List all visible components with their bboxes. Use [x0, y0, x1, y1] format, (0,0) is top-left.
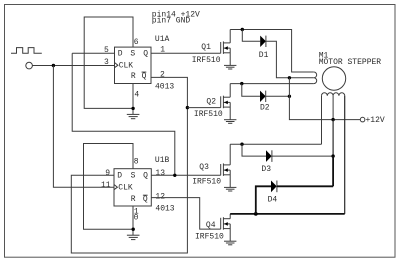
- wire U1A Q (pin1) to Q1 gate: [151, 52, 221, 54]
- ground Q2 source: [224, 120, 236, 124]
- svg-text:CLK: CLK: [118, 184, 133, 193]
- node D3 anode tap: [240, 143, 243, 146]
- wire D3 cathode to +12V riser: [272, 155, 333, 157]
- svg-text:U1B: U1B: [155, 156, 170, 165]
- svg-text:CLK: CLK: [119, 62, 134, 71]
- transistor Q1: [221, 30, 231, 66]
- wire D3 anode: [242, 144, 266, 156]
- svg-text:2: 2: [160, 71, 165, 80]
- wire Q2 drain to motor winding A bottom: [230, 83, 314, 85]
- svg-text:S: S: [131, 171, 136, 180]
- svg-text:6: 6: [134, 38, 139, 47]
- svg-text:4: 4: [134, 91, 139, 100]
- svg-text:Q: Q: [143, 171, 148, 180]
- clock input square-wave symbol: [11, 48, 42, 54]
- svg-text:D4: D4: [268, 195, 278, 204]
- svg-text:Q3: Q3: [199, 163, 209, 172]
- node D1 anode tap: [241, 28, 244, 31]
- transistor Q3: [221, 144, 231, 187]
- motor winding A center tap lead: [289, 77, 313, 79]
- wire U1B Q (pin13) to Q3 gate: [151, 174, 220, 176]
- wire U1B R (pin10) to ground: [132, 206, 134, 235]
- node D4 anode tap: [254, 212, 258, 216]
- svg-text:U1A: U1A: [155, 35, 170, 44]
- wire U1A S (pin6) to ground loop: [84, 17, 133, 108]
- wire +12V riser and rail: [289, 78, 360, 120]
- diode D4: [271, 181, 277, 193]
- wire D4 cathode to +12V riser: [277, 185, 333, 187]
- motor winding A coil arcs: [314, 72, 317, 84]
- node Qbar/Q2gate junction: [186, 106, 189, 109]
- node D2 anode tap: [240, 82, 243, 85]
- node D3 cathode junction: [331, 154, 334, 157]
- svg-text:MOTOR STEPPER: MOTOR STEPPER: [319, 58, 382, 67]
- svg-text:Q1: Q1: [201, 43, 211, 52]
- svg-text:R: R: [131, 195, 136, 204]
- ground Q1 source: [224, 65, 236, 69]
- svg-text:11: 11: [101, 181, 111, 190]
- wire D1 cathode to +12V node: [266, 41, 290, 78]
- terminal +12V pad: [360, 117, 365, 122]
- wire winding B center lead: [332, 96, 334, 120]
- svg-text:pin7 GND: pin7 GND: [152, 17, 191, 26]
- wire input to U1A CLK: [32, 65, 114, 67]
- wire D2 cathode to +12V riser: [266, 95, 290, 97]
- diode D3: [266, 150, 272, 162]
- wire clock down to U1B CLK: [53, 66, 114, 188]
- wire winding B lead3 to Q4 drain: [344, 96, 346, 214]
- svg-text:IRF510: IRF510: [192, 178, 221, 187]
- svg-text:D3: D3: [261, 165, 271, 174]
- node D2 cathode junction: [288, 95, 291, 98]
- svg-text:IRF510: IRF510: [194, 110, 223, 119]
- svg-text:9: 9: [105, 169, 110, 178]
- wire U1A R (pin4) to ground: [132, 84, 134, 115]
- ground Q4 source: [224, 241, 236, 245]
- node winding B center / +12V rail: [331, 118, 334, 121]
- svg-text:13: 13: [155, 169, 165, 178]
- wire D1 anode: [242, 30, 260, 42]
- wire U1A D loop to U1B Q node: [72, 53, 175, 175]
- svg-text:IRF510: IRF510: [192, 56, 221, 65]
- svg-text:R: R: [131, 72, 136, 81]
- svg-text:12: 12: [155, 193, 165, 202]
- svg-text:Q: Q: [143, 50, 148, 59]
- wire Q2 gate: [187, 107, 220, 109]
- node clock junction: [52, 64, 55, 67]
- svg-text:D2: D2: [260, 103, 270, 112]
- wire U1B S (pin8) to ground loop: [84, 144, 134, 230]
- ground U1A: [127, 114, 140, 118]
- svg-text:3: 3: [104, 58, 109, 67]
- svg-text:Q: Q: [142, 72, 147, 81]
- wire U1A Qbar (pin2) to Q2 gate and U1B D loop: [71, 77, 187, 253]
- transistor Q4: [221, 214, 231, 241]
- wire Q1 drain to motor winding A top: [230, 30, 314, 73]
- node U1A S/R ground junction: [131, 107, 134, 110]
- svg-text:4013: 4013: [155, 83, 174, 92]
- input terminal pad: [26, 62, 33, 69]
- svg-text:Q2: Q2: [206, 97, 216, 106]
- svg-text:4013: 4013: [155, 205, 174, 214]
- wire winding B lead1 to Q3 drain: [321, 96, 323, 145]
- transistor Q2: [221, 84, 231, 120]
- wire Q4 drain to winding B lead3: [230, 213, 345, 215]
- node winding A center tap: [288, 76, 291, 79]
- U1A clk wedge: [115, 63, 118, 68]
- svg-text:S: S: [130, 50, 135, 59]
- diode D2: [260, 91, 266, 102]
- U1B clk wedge: [114, 185, 117, 190]
- node U1B S/R ground junction: [132, 228, 135, 231]
- op-amp U1A box: [115, 47, 152, 83]
- wire riser D3 to D4 cathode: [332, 156, 334, 186]
- svg-text:+12V: +12V: [366, 116, 385, 125]
- svg-text:Q4: Q4: [206, 221, 216, 230]
- diode D1: [260, 36, 266, 47]
- ground Q3 source: [224, 187, 236, 191]
- wire riser +12V to D3 cathode: [332, 120, 334, 157]
- svg-text:D: D: [117, 171, 122, 180]
- wire U1B Qbar (pin12) to Q4 gate: [151, 198, 220, 230]
- wire U1A D input (pin5): [72, 52, 114, 54]
- motor winding B coil arcs: [322, 93, 345, 96]
- motor M1 body: [322, 67, 345, 90]
- svg-text:D: D: [118, 50, 123, 59]
- svg-text:Q: Q: [143, 195, 148, 204]
- wire D4 anode: [256, 186, 271, 214]
- node pin13/U1A-D junction: [173, 174, 176, 177]
- ground U1B: [127, 235, 140, 239]
- svg-text:8: 8: [134, 157, 139, 166]
- wire Q3 drain to winding B lead1: [230, 143, 321, 145]
- svg-text:0: 0: [134, 213, 139, 222]
- svg-text:IRF510: IRF510: [195, 232, 224, 241]
- wire D2 anode: [242, 84, 260, 97]
- op-amp U1B box: [114, 169, 151, 206]
- svg-text:D1: D1: [259, 51, 269, 60]
